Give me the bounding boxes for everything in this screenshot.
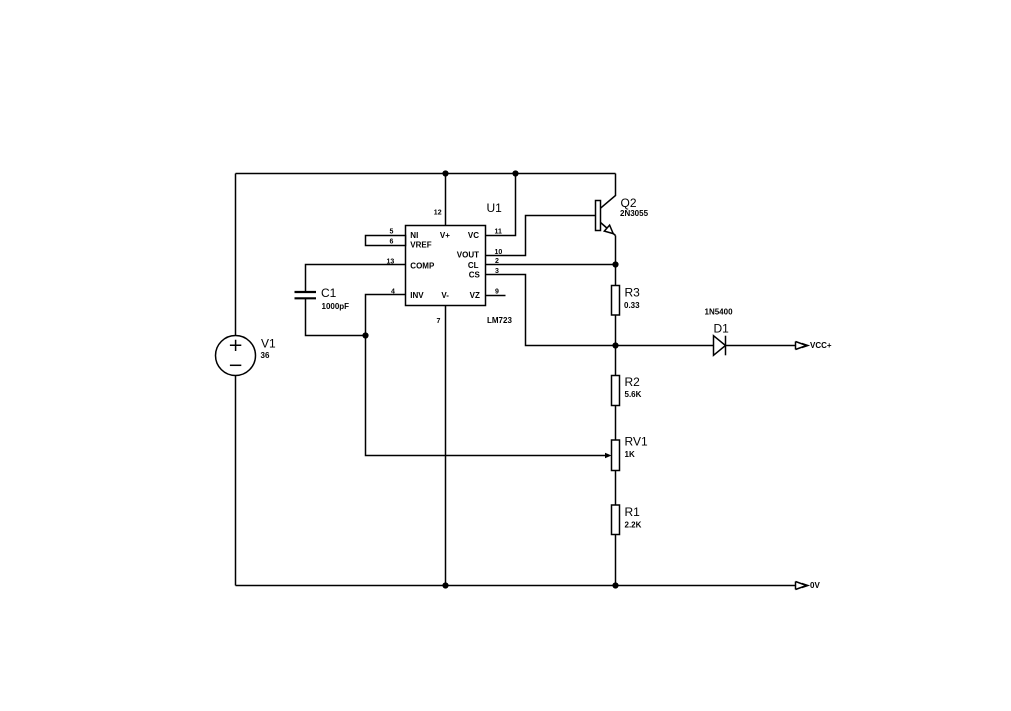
- svg-text:COMP: COMP: [410, 261, 435, 270]
- wire pin 11 VC: [486, 174, 516, 236]
- svg-text:0.33: 0.33: [624, 301, 640, 310]
- wire node to R2: [615, 346, 617, 376]
- svg-text:V1: V1: [261, 337, 276, 351]
- terminal 0V: [796, 582, 808, 590]
- wire bottom 0V rail: [236, 585, 796, 587]
- svg-text:VOUT: VOUT: [457, 251, 479, 260]
- wire pin 10 VOUT to Q2 base: [486, 216, 596, 256]
- resistor R1: [612, 505, 620, 535]
- svg-text:1N5400: 1N5400: [705, 308, 734, 317]
- wire diode cathode to VCC+ terminal: [726, 345, 796, 347]
- node junction R3 / CS / D1 / R2: [612, 342, 618, 348]
- svg-text:5.6K: 5.6K: [625, 390, 642, 399]
- svg-text:0V: 0V: [810, 581, 820, 590]
- svg-text:R1: R1: [625, 505, 641, 519]
- wire pin 3 CS down and right: [486, 275, 616, 346]
- node junction R1 / 0V rail: [612, 582, 618, 588]
- svg-text:2: 2: [495, 258, 499, 265]
- wire Q2 collector: [601, 174, 616, 209]
- svg-text:CS: CS: [469, 271, 481, 280]
- svg-text:2.2K: 2.2K: [625, 521, 642, 530]
- svg-text:C1: C1: [321, 286, 337, 300]
- svg-text:4: 4: [391, 289, 395, 296]
- svg-text:V+: V+: [440, 231, 450, 240]
- svg-text:R3: R3: [625, 286, 641, 300]
- svg-text:1000pF: 1000pF: [322, 302, 350, 311]
- voltage source V1: [216, 336, 256, 376]
- resistor R3: [612, 286, 620, 316]
- svg-text:R2: R2: [625, 375, 641, 389]
- svg-text:V-: V-: [441, 291, 449, 300]
- wire V1 top lead: [235, 174, 237, 336]
- svg-text:VZ: VZ: [470, 291, 480, 300]
- wire R2 to RV1: [615, 406, 617, 441]
- svg-text:1K: 1K: [625, 450, 635, 459]
- resistor R2: [612, 376, 620, 406]
- svg-text:Q2: Q2: [621, 196, 637, 210]
- svg-text:3: 3: [495, 268, 499, 275]
- wire node to diode anode: [616, 345, 714, 347]
- node junction C1 / INV / wiper: [362, 332, 368, 338]
- wire pin 13 COMP to C1 top: [306, 265, 406, 292]
- svg-text:36: 36: [261, 351, 270, 360]
- svg-text:VCC+: VCC+: [810, 341, 832, 350]
- svg-text:RV1: RV1: [625, 435, 648, 449]
- wire pin 7 V-: [445, 306, 447, 586]
- terminal VCC+: [796, 342, 808, 350]
- svg-text:5: 5: [390, 229, 394, 236]
- node junction emitter / CL / R3: [612, 261, 618, 267]
- op-amp U1 LM723 body: [406, 226, 486, 306]
- wire pin 4 INV: [366, 295, 406, 336]
- svg-text:12: 12: [434, 210, 442, 217]
- node junction V- / 0V rail: [442, 582, 448, 588]
- jumper shorting pins 5 and 6 (NI-VREF): [366, 236, 406, 246]
- svg-text:CL: CL: [468, 261, 479, 270]
- wire emitter node to R3: [615, 265, 617, 286]
- wire R3 to node: [615, 315, 617, 346]
- svg-text:6: 6: [390, 239, 394, 246]
- wire Q2 emitter down: [615, 236, 617, 265]
- transistor Q2: [596, 201, 616, 236]
- svg-text:VREF: VREF: [410, 240, 431, 249]
- svg-text:D1: D1: [714, 322, 730, 336]
- wire C1 bottom to node: [306, 299, 366, 336]
- capacitor C1: [295, 292, 317, 298]
- wire RV1 to R1: [615, 471, 617, 506]
- svg-text:2N3055: 2N3055: [620, 209, 649, 218]
- svg-text:10: 10: [495, 249, 503, 256]
- svg-text:13: 13: [387, 259, 395, 266]
- wire V1 bottom lead: [235, 376, 237, 586]
- svg-text:LM723: LM723: [487, 316, 512, 325]
- svg-text:7: 7: [437, 318, 441, 325]
- wire pin 12 V+: [445, 174, 447, 226]
- wire pin 2 CL to emitter node: [486, 264, 616, 266]
- svg-text:INV: INV: [410, 291, 424, 300]
- wire R1 to 0V rail: [615, 535, 617, 586]
- svg-text:VC: VC: [468, 231, 479, 240]
- diode D1: [714, 336, 726, 356]
- svg-text:9: 9: [495, 289, 499, 296]
- potentiometer RV1: [605, 440, 620, 471]
- wire feedback to RV1 wiper: [366, 336, 606, 456]
- wire top rail: [236, 173, 616, 175]
- node junction top rail / pin 11: [512, 170, 518, 176]
- wire pin 9 VZ stub: [486, 295, 506, 297]
- svg-text:11: 11: [495, 229, 503, 236]
- svg-text:U1: U1: [487, 201, 503, 215]
- svg-text:NI: NI: [410, 231, 418, 240]
- node junction top rail / pin 12: [442, 170, 448, 176]
